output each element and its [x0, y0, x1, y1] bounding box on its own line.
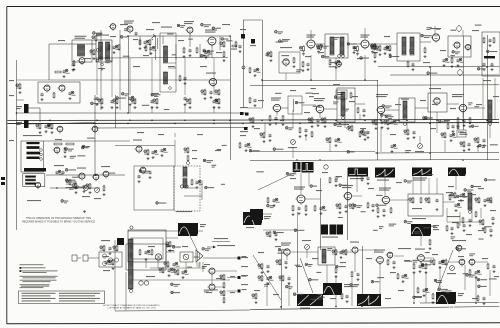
waveform photo W12	[357, 294, 381, 306]
label sprinkle video	[240, 84, 366, 136]
cluster x256 y296	[252, 293, 258, 304]
waveform photo W11 diag	[297, 294, 323, 309]
resistor R14 stack	[220, 290, 235, 304]
diamond sym top	[456, 25, 462, 32]
wire tuner out y141	[44, 140, 131, 142]
wire bot link	[291, 250, 488, 262]
resistor R8 ladder	[26, 176, 36, 185]
caption line2	[108, 307, 157, 310]
label vert node a	[238, 276, 247, 280]
wire video to bus	[265, 123, 330, 158]
label keyer	[412, 218, 426, 219]
box IF lower outline	[49, 79, 230, 81]
cluster x352 y274	[351, 271, 360, 281]
wire y145 mid	[115, 145, 175, 147]
transformer T2b hatched	[164, 72, 168, 84]
wire IF mesh v1	[140, 36, 150, 55]
box audio output transformer	[397, 33, 420, 61]
cluster x447 y228	[446, 225, 454, 235]
tube V37 horiz out	[415, 249, 425, 264]
cluster x280 y262	[276, 259, 288, 269]
note coordination line2	[22, 220, 95, 223]
caption line1	[103, 304, 160, 307]
wire vert x377	[377, 80, 379, 160]
wire x203 down	[202, 262, 204, 272]
wire W8 lead	[263, 214, 272, 219]
stack x188 y150	[184, 147, 197, 165]
border frame left	[6, 7, 8, 325]
cluster below V22	[457, 117, 472, 128]
wire row1 tops	[311, 26, 435, 40]
wire IF row y58	[96, 57, 228, 60]
waveform photo W1 sine	[178, 223, 206, 241]
wire video drops	[277, 110, 360, 128]
note coordination line1	[26, 217, 91, 220]
waveform photo W4	[348, 168, 368, 180]
wire hv row	[133, 268, 230, 280]
tuner coil bar 5 thick	[24, 168, 46, 171]
cluster x398 y276	[397, 273, 409, 283]
cluster x479 y200	[475, 197, 492, 207]
transformer T1 1st video IF	[96, 35, 112, 71]
cluster x20 y85	[16, 83, 22, 94]
pot vert hold	[302, 240, 311, 249]
label AT TOP VIEW	[176, 211, 192, 212]
tube pair in speaker box	[139, 276, 155, 285]
ground sym above note	[83, 210, 86, 213]
cluster x342 y296	[341, 293, 349, 303]
label tuner text	[23, 135, 42, 136]
cluster keyer pins	[409, 197, 439, 211]
tube V13 audio	[139, 167, 152, 179]
transformer T5 winding b	[410, 37, 414, 55]
diamond sym bottom	[457, 69, 463, 76]
cluster x478 y140	[474, 137, 486, 148]
wire IF mesh v2	[163, 36, 176, 60]
boosted b+ label	[212, 238, 230, 242]
wire IF verticals to bus	[97, 58, 214, 80]
wire W9 lead	[420, 236, 422, 246]
cluster x368 y205	[367, 202, 375, 212]
tube V18	[453, 42, 461, 50]
cluster x85 y188	[82, 185, 106, 199]
connector J2 black	[16, 120, 29, 128]
transformer T4 winding b	[340, 37, 344, 55]
wire video link	[281, 104, 365, 109]
transformer T5 winding a	[402, 37, 406, 55]
transformer T9 horiz	[468, 193, 472, 213]
boxed service note	[19, 291, 105, 304]
label under black row	[322, 237, 338, 238]
cluster x58 y145	[54, 139, 74, 145]
wire row2 to bus	[381, 127, 478, 152]
cluster x380 audio	[376, 45, 392, 56]
horiz afc wires	[447, 208, 481, 226]
cluster x165 y270	[159, 267, 175, 277]
box damper	[180, 252, 193, 262]
label sprinkle IF2	[58, 36, 222, 59]
wire B+ bus y120	[8, 120, 500, 121]
tube V13b sound disc driver	[133, 140, 142, 154]
transformer T8 video	[337, 88, 355, 122]
connector black M2	[250, 39, 256, 46]
cluster x408 y64	[407, 61, 415, 71]
cluster x362 y178	[361, 175, 370, 185]
cluster x267 y52	[265, 51, 272, 62]
tube V32	[208, 284, 216, 292]
tube V24 video out	[314, 98, 325, 114]
diag wire sync	[258, 170, 300, 190]
label sprinkle bot	[258, 246, 499, 277]
wire bottom border y306	[250, 307, 499, 310]
cluster x360 y134	[359, 131, 367, 141]
black bar selenium	[484, 56, 495, 58]
tube V14 sound det	[281, 59, 289, 67]
wire vert x230	[230, 36, 232, 160]
cluster x168 y264	[164, 261, 180, 271]
wire vert x155	[155, 36, 157, 60]
label HV node	[238, 256, 247, 260]
wire disc taps	[184, 180, 202, 200]
pot horiz drive	[447, 266, 456, 275]
cluster ps parts2	[482, 63, 493, 71]
wire T2 taps	[168, 63, 176, 89]
waveform photo W10	[323, 283, 350, 300]
cluster x455 y195	[451, 192, 467, 202]
wire hv drops	[133, 258, 199, 280]
coil L1 2nd IF	[156, 38, 159, 49]
wire IF mesh v3	[190, 33, 200, 58]
black squares row mid	[321, 225, 343, 235]
horiz afc labels	[446, 192, 492, 235]
capacitor C9 bypass row	[183, 97, 191, 109]
wire vert x347	[347, 168, 349, 240]
tube V2 1st video IF amp	[124, 21, 134, 34]
cluster x66 y52	[92, 35, 99, 62]
wire heater bus y128	[95, 127, 248, 130]
wire vert x243 antenna	[243, 20, 245, 108]
resistor R13 stack	[220, 274, 235, 289]
rf osc hatch bolder	[26, 176, 36, 184]
tube V5A	[43, 85, 51, 93]
tube V38b	[468, 259, 475, 266]
cluster below V27	[377, 207, 392, 218]
cluster below V15	[302, 61, 310, 72]
wire tuner feed	[29, 108, 96, 124]
black photo W8 left	[250, 209, 263, 220]
wire vert x128	[128, 36, 130, 113]
pot volume	[415, 144, 424, 153]
wire keyer top pins	[413, 190, 437, 194]
box filament circle group	[99, 252, 122, 267]
cluster x418 y290	[414, 287, 430, 297]
wire vert out leads	[212, 274, 224, 287]
plug interlock a	[72, 255, 81, 261]
cluster below V4b	[201, 89, 220, 100]
wire osc row2	[50, 187, 100, 189]
cluster x250 y100	[249, 97, 257, 107]
cluster x352 y128	[344, 124, 353, 132]
tuner bars bolder	[27, 146, 43, 160]
cluster x388 y262	[387, 259, 396, 269]
cluster x180 y78	[179, 75, 187, 85]
coil L2 peaking	[292, 99, 295, 112]
tube heater a	[102, 254, 106, 258]
CRT anode triangle	[196, 250, 203, 262]
wire bottom bus y303	[420, 302, 499, 305]
waveform photo W3b	[302, 162, 314, 173]
cluster below T4	[329, 59, 342, 69]
tube heater b	[108, 258, 112, 262]
cluster x270 y234	[266, 231, 278, 241]
box power supply right	[482, 32, 500, 76]
cluster x300 y130	[299, 127, 313, 138]
cluster x240 y145	[239, 142, 252, 152]
diag wire vert 2	[253, 255, 281, 300]
wire ant feed h	[243, 20, 262, 108]
wire B+ bus y80 mid	[262, 80, 378, 82]
cluster x408 y130	[404, 129, 416, 140]
box dual triode outline	[38, 82, 80, 103]
tube heater d	[114, 258, 118, 262]
left margin mark	[1, 177, 5, 185]
wire row2 link	[385, 104, 485, 110]
waveform photo W6	[412, 168, 432, 181]
cluster x283 y278	[279, 275, 291, 285]
contrast pot	[288, 140, 297, 149]
wire node leads	[215, 271, 237, 291]
wire W1 lead	[190, 236, 197, 250]
cluster below V25	[292, 205, 308, 216]
wire bot to bus	[267, 272, 476, 306]
box speaker outline	[128, 230, 166, 262]
wire sync drops	[301, 173, 456, 196]
cluster x414 y266	[413, 263, 428, 274]
capacitor C8 bypass row	[150, 98, 158, 109]
cluster x206 y52	[204, 50, 211, 59]
tube V25 sync sep	[294, 187, 305, 205]
cluster x433 y296	[432, 293, 435, 304]
cluster x488 y266	[487, 263, 496, 273]
cluster x390 y148	[390, 144, 397, 153]
label sprinkle sync	[290, 176, 496, 211]
cluster right edge BB	[240, 127, 248, 132]
wire vert x115 bottom	[114, 240, 116, 311]
wire vert x430	[430, 67, 432, 160]
tube V20 sound IF amp	[376, 106, 385, 115]
cluster x315 y208	[314, 205, 327, 215]
capacitor C10 bypass row	[212, 98, 220, 109]
tube V4 3rd video IF amp	[205, 30, 217, 47]
cluster x162 y152	[160, 148, 167, 157]
tuner coil bar 2	[27, 146, 40, 148]
transformer T6	[399, 98, 415, 125]
wire interlock to box	[92, 257, 99, 259]
box vert osc trans	[318, 247, 335, 265]
label mid small box1	[336, 90, 347, 99]
label 2nd anode arrow	[207, 245, 235, 248]
wire vert x320	[320, 178, 322, 250]
wire bus y160 right	[250, 160, 499, 161]
wire keyer pins drop	[413, 168, 437, 190]
waveform photo W7	[448, 168, 466, 179]
cluster flyback taps	[139, 249, 153, 261]
tube V36 horiz osc b	[386, 252, 393, 259]
wire vert x95	[94, 95, 96, 175]
tube V11 AFC b	[92, 174, 99, 181]
tube V4b 4th video IF amp	[206, 73, 217, 88]
notes black square bullet	[20, 267, 22, 272]
wire vert x463	[463, 36, 465, 130]
box keyer AGC	[408, 194, 443, 216]
cluster x470 y272	[469, 269, 482, 279]
tube small right of photos	[322, 165, 328, 173]
capacitor C1	[55, 63, 75, 78]
cluster x332 y252	[332, 249, 347, 259]
waveform photo W5	[375, 168, 395, 181]
cluster x262 y278	[258, 275, 274, 285]
label RF OSC	[27, 200, 41, 201]
wire speaker leads	[166, 238, 178, 252]
wire HV out	[203, 257, 240, 259]
wire bus drops to y113	[130, 104, 214, 113]
wire B+ y75 right	[390, 74, 499, 76]
cluster x358 y110	[357, 107, 366, 117]
cluster x485 y230	[484, 227, 493, 237]
wire vert x487	[487, 35, 489, 160]
cluster x250 y70	[249, 67, 261, 77]
resistor R1	[90, 49, 96, 60]
resistor R12 stack	[371, 43, 377, 63]
cluster x434 y262	[430, 259, 447, 269]
tube V30 damper	[183, 254, 189, 260]
box dashed sound det	[279, 47, 300, 73]
wire speaker box top	[128, 230, 203, 232]
wire y151 mid band	[250, 151, 375, 153]
cluster x444 y60	[442, 58, 449, 67]
tube V5B	[58, 85, 66, 93]
label left margin	[9, 80, 14, 141]
label sprinkle IF	[98, 22, 230, 69]
wire long vert x120	[119, 30, 121, 110]
cluster left of flyback	[100, 240, 118, 257]
cluster x330 y180	[329, 177, 338, 187]
box IF section outline	[49, 44, 96, 80]
wire bottom left section y310	[115, 310, 250, 311]
label horiz afc	[447, 216, 460, 217]
tube V35 horiz osc	[374, 250, 385, 266]
cluster x336 y270	[335, 267, 338, 278]
resistor R7 cluster	[36, 123, 54, 134]
wire vert x262 antenna	[262, 20, 264, 108]
cluster x253 y120	[249, 117, 255, 128]
transformer T7	[488, 100, 492, 125]
node antenna dot	[242, 66, 245, 69]
tube V8 rf	[91, 126, 98, 133]
wire bot drops	[287, 250, 490, 296]
border frame bottom	[7, 323, 500, 324]
left part labels col	[241, 257, 248, 285]
tuner box outline	[21, 141, 44, 172]
tube V34 vert out	[350, 242, 359, 255]
cluster below V20	[372, 119, 390, 130]
wire ps box drops	[483, 78, 495, 120]
transformer T4 winding a	[330, 37, 334, 55]
box IF trap dashed	[160, 27, 176, 93]
tube V19	[464, 44, 471, 51]
cluster x236 y44	[235, 41, 242, 53]
tube heater c	[102, 261, 106, 265]
tuner coil bar 4	[27, 157, 40, 159]
wire sounddet drop	[286, 55, 365, 80]
box discriminator outline	[134, 166, 200, 211]
mixer grid coil box	[72, 36, 92, 62]
tube V27 sync inv A	[379, 188, 391, 206]
box phase splitter	[448, 36, 471, 57]
tube V3 2nd video IF amp	[184, 21, 194, 35]
connector black M1	[240, 29, 246, 39]
label sprinkle row1	[305, 30, 491, 81]
notes text block	[20, 264, 58, 288]
cluster x363 y132	[362, 129, 370, 139]
label mid small box2	[349, 92, 355, 102]
cluster x110 y47	[108, 44, 120, 54]
connector J1 black	[16, 104, 29, 113]
transformer T2a hatched	[164, 46, 168, 63]
wire AGC bus y113	[16, 112, 248, 114]
wire sync link	[305, 196, 472, 222]
cluster x445 y135	[441, 132, 457, 142]
tube V26 sync inv	[342, 185, 353, 201]
transformer T3 discriminator	[180, 167, 188, 188]
label horiz multiv	[398, 248, 411, 249]
label mid text	[312, 93, 319, 94]
wire osc out	[46, 174, 125, 176]
diag wire vert 1	[300, 258, 313, 293]
circle T4 slug	[338, 55, 345, 58]
wire B+ bus y123	[8, 123, 500, 124]
tube V1 mixer	[73, 45, 85, 71]
cluster x330 y140	[326, 137, 342, 147]
wire vert x281	[281, 250, 283, 309]
resistor R2 cluster	[139, 39, 151, 50]
cluster below V26	[336, 203, 354, 214]
wire row2 drops	[381, 112, 490, 138]
wire IF verticals to bus2	[97, 80, 214, 97]
box video peaking	[288, 96, 302, 114]
horiz afc extra parts	[449, 194, 495, 230]
wire bus y153 right	[375, 152, 499, 155]
cluster x147 y48	[145, 45, 157, 55]
wire section y85 right	[250, 84, 499, 87]
cluster x448 y126	[444, 120, 459, 133]
label 4.5mc sound tag	[376, 94, 388, 97]
tube V29 HV rect	[155, 254, 161, 260]
wire mid row3	[263, 229, 297, 231]
resistor R9 cluster	[72, 183, 92, 194]
wire vert x126 bottom	[125, 272, 127, 311]
antenna loop symbol	[146, 29, 154, 40]
box small x458 y131	[457, 130, 466, 137]
cluster left of flyback2	[103, 259, 115, 271]
tube V33 vert osc	[281, 243, 291, 257]
wire sync vert x297	[297, 212, 299, 228]
black mark bottom left box	[117, 238, 124, 245]
tuner coil bar 3	[27, 152, 41, 154]
capacitor C6 bypass row	[110, 98, 118, 109]
label sprinkle row2	[390, 96, 499, 135]
cluster below V18	[451, 57, 464, 68]
